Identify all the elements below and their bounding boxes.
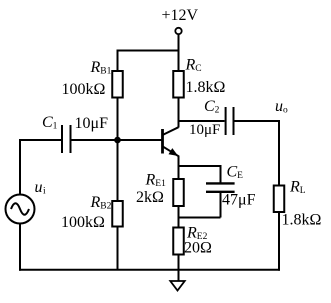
wire RB2 bottom bbox=[117, 227, 119, 270]
wire emitter vertical bbox=[178, 156, 180, 180]
wire RE1 to RE2 bbox=[178, 206, 180, 228]
resistor RE1 bbox=[173, 179, 184, 206]
resistor RC bbox=[173, 71, 184, 98]
wire RC top bbox=[178, 51, 180, 72]
wire collector to C2 bbox=[179, 120, 225, 122]
capacitor C1 bbox=[62, 125, 71, 153]
wire CE lower stub bbox=[220, 192, 222, 218]
wire CE branch return bbox=[179, 217, 221, 219]
ground stub bbox=[178, 270, 180, 281]
ground bbox=[170, 281, 184, 291]
transistor Q1 bbox=[163, 127, 179, 156]
svg-text:10μF: 10μF bbox=[189, 122, 220, 138]
wire base horizontal bbox=[72, 139, 163, 141]
wire CE branch top bbox=[179, 165, 221, 167]
wire terminal stub bbox=[178, 34, 180, 50]
svg-text:1.8kΩ: 1.8kΩ bbox=[282, 212, 322, 229]
wire CE branch down bbox=[220, 165, 222, 183]
wire uo vertical bbox=[278, 120, 280, 186]
svg-text:100kΩ: 100kΩ bbox=[61, 214, 105, 231]
wire RB1 to base node bbox=[117, 98, 119, 141]
source ui bbox=[6, 195, 35, 224]
capacitor CE bbox=[206, 183, 235, 191]
svg-text:+12V: +12V bbox=[162, 7, 199, 24]
wire left vertical upper bbox=[19, 139, 21, 195]
svg-text:2kΩ: 2kΩ bbox=[136, 189, 164, 206]
wire RB2 top bbox=[117, 140, 119, 201]
svg-text:10μF: 10μF bbox=[75, 115, 109, 132]
svg-text:20Ω: 20Ω bbox=[184, 240, 212, 257]
node base junction bbox=[114, 137, 121, 144]
resistor RB2 bbox=[112, 201, 123, 227]
wire RL bottom bbox=[278, 212, 280, 271]
wire RC bottom to collector bbox=[178, 98, 180, 128]
wire C1 left bbox=[20, 139, 61, 141]
capacitor C2 bbox=[226, 107, 234, 135]
resistor RB1 bbox=[112, 71, 123, 98]
wire RE2 bottom bbox=[178, 255, 180, 270]
resistor RE2 bbox=[173, 228, 184, 255]
wire C2 to uo corner bbox=[235, 120, 280, 122]
power terminal +12V bbox=[175, 28, 181, 34]
wire top horizontal bbox=[118, 50, 179, 52]
svg-text:47μF: 47μF bbox=[222, 192, 256, 209]
resistor RL bbox=[274, 186, 285, 213]
svg-text:100kΩ: 100kΩ bbox=[62, 81, 106, 98]
wire left vertical lower bbox=[19, 224, 21, 271]
wire RB1 top bbox=[117, 50, 119, 72]
wire bottom rail bbox=[19, 269, 280, 271]
svg-text:1.8kΩ: 1.8kΩ bbox=[186, 79, 226, 96]
